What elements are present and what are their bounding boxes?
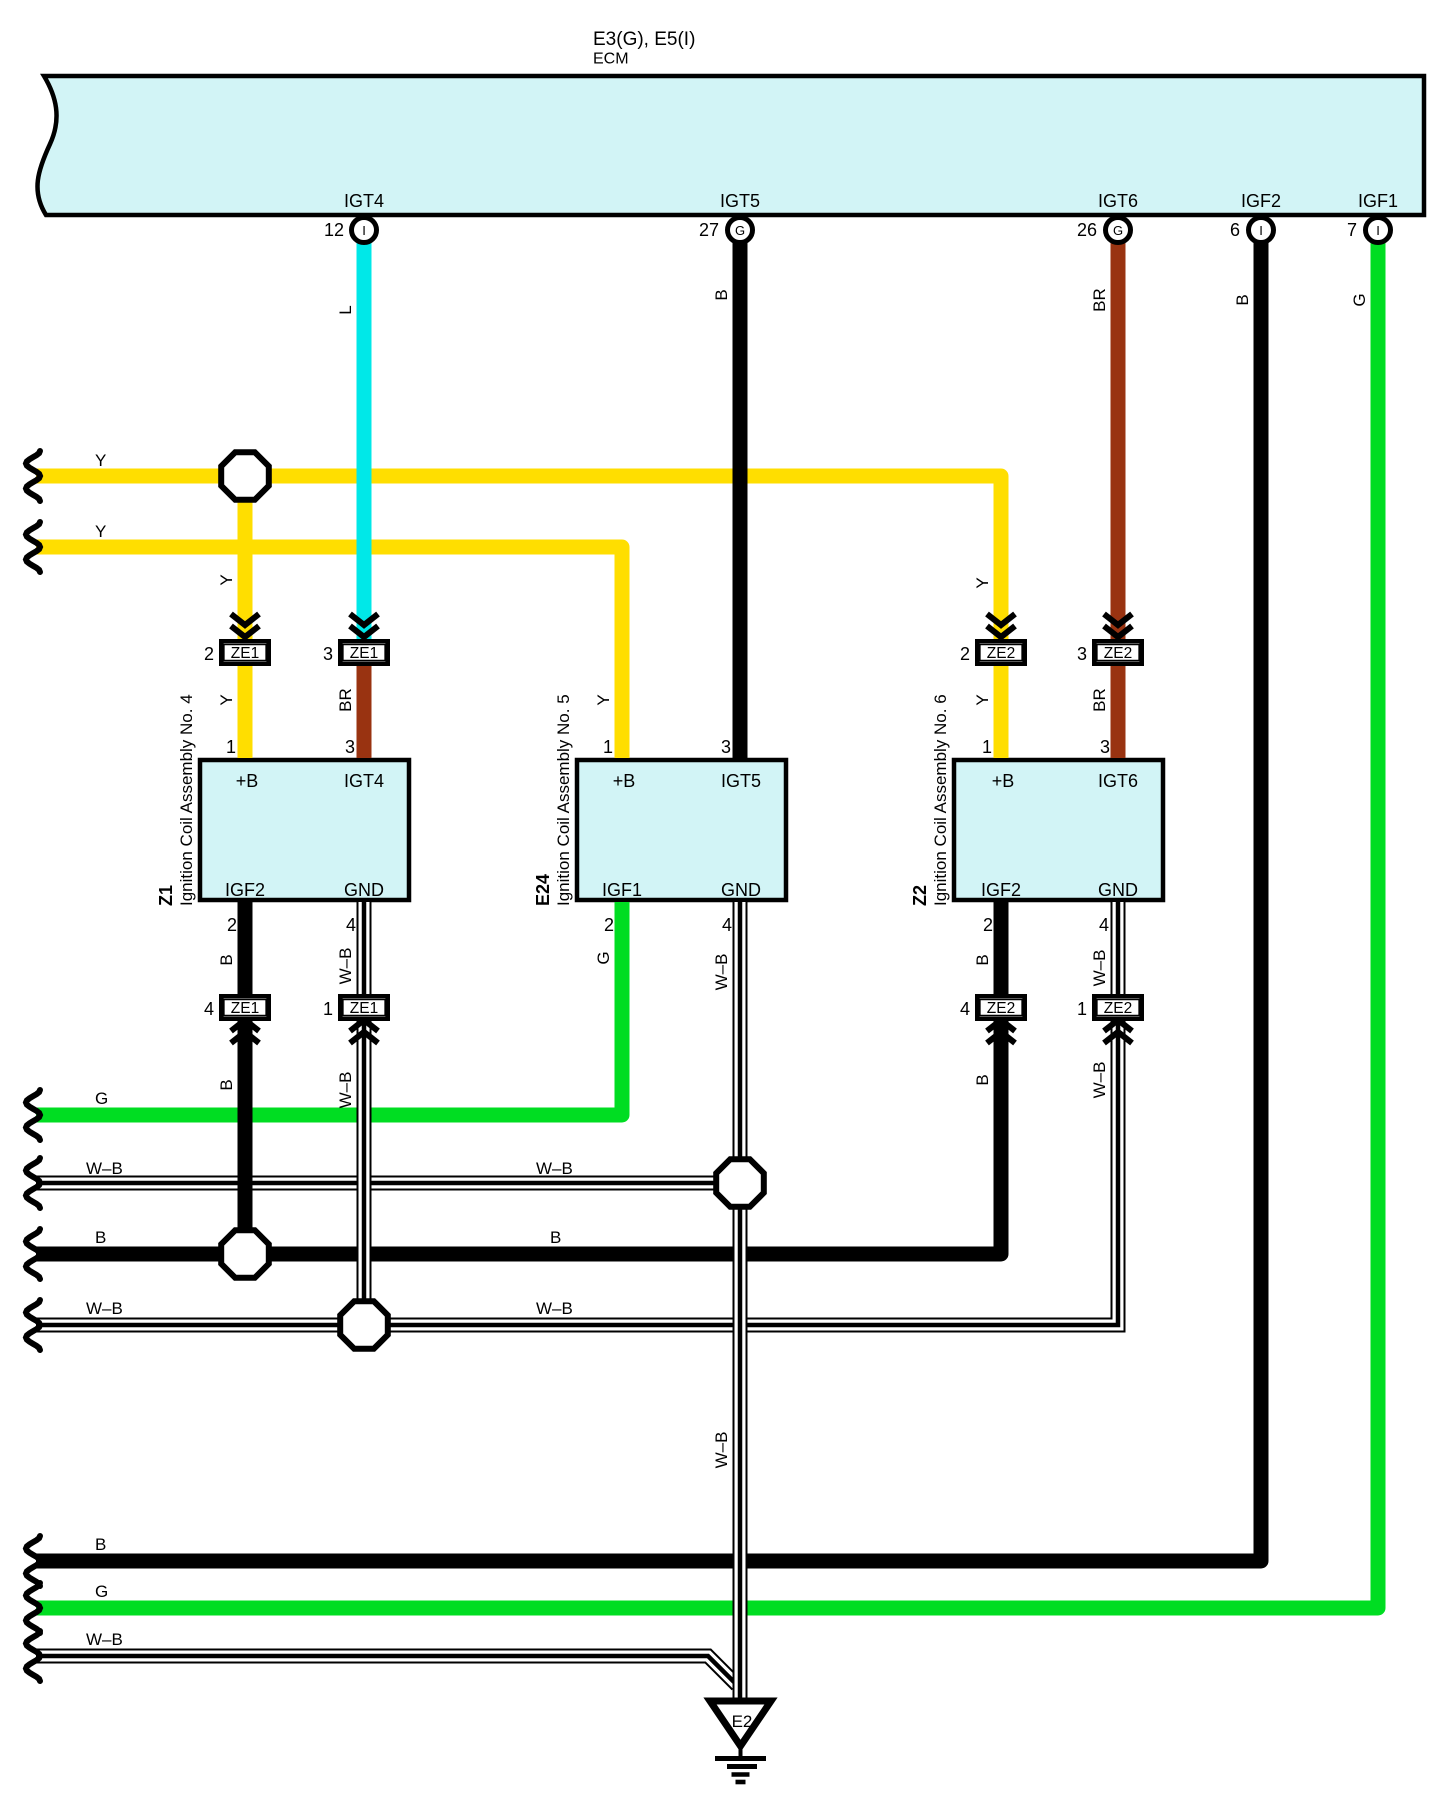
ECM terminal label IGF1 bbox=[1358, 191, 1398, 211]
svg-text:Z2: Z2 bbox=[910, 885, 930, 906]
svg-text:ECM: ECM bbox=[593, 51, 629, 68]
connector ZE2 pin 1 bbox=[1094, 996, 1141, 1018]
wire label B bottom left bbox=[95, 1535, 106, 1554]
wire color label B coil4 IGF2 bbox=[217, 954, 236, 965]
ECM terminal label IGT5 bbox=[720, 191, 760, 211]
wire B from ECM IGF2 to left edge bbox=[36, 243, 1261, 1561]
wire break symbol B bottom bbox=[26, 1536, 40, 1586]
wire label Y bus left bbox=[95, 451, 106, 470]
svg-text:2: 2 bbox=[983, 915, 993, 935]
connector ZE2 pin 2 bbox=[977, 641, 1024, 663]
svg-text:+B: +B bbox=[236, 771, 259, 791]
svg-text:ZE1: ZE1 bbox=[231, 645, 259, 662]
pin number coil5 pin 4 bbox=[722, 915, 732, 935]
component title No.5 bbox=[554, 694, 573, 906]
svg-text:6: 6 bbox=[1230, 220, 1240, 240]
wire color label W-B ground run bbox=[712, 1432, 731, 1469]
junction W-B ground bus bbox=[716, 1159, 764, 1207]
wire label W-B lower mid bbox=[536, 1299, 573, 1318]
junction B bus bbox=[221, 1230, 269, 1278]
svg-text:1: 1 bbox=[1077, 999, 1087, 1019]
svg-text:B: B bbox=[95, 1228, 106, 1247]
svg-text:IGT6: IGT6 bbox=[1098, 191, 1138, 211]
male connector arrow into ZE1 pin 2 bbox=[231, 614, 259, 637]
wire color label BR coil6 IGT6 bbox=[1090, 688, 1109, 712]
svg-text:E3(G), E5(I): E3(G), E5(I) bbox=[593, 29, 695, 50]
junction Y bus bbox=[221, 452, 269, 500]
wire color label W-B coil6 GND bbox=[1090, 950, 1109, 987]
male connector arrow into ZE1 pin 1 bbox=[350, 1020, 378, 1043]
svg-text:I: I bbox=[362, 223, 366, 238]
svg-text:GND: GND bbox=[344, 880, 384, 900]
svg-text:4: 4 bbox=[722, 915, 732, 935]
wire label B bus mid bbox=[550, 1228, 561, 1247]
svg-text:Y: Y bbox=[95, 451, 106, 470]
svg-text:BR: BR bbox=[1090, 688, 1109, 712]
svg-text:Y: Y bbox=[973, 577, 992, 588]
wire Y (+B feed to ZE2-2 / coil No.6) bbox=[36, 476, 1001, 758]
connector ZE1 pin 1 bbox=[340, 996, 387, 1018]
svg-text:IGF1: IGF1 bbox=[602, 880, 642, 900]
pin number coil4 pin 4 bbox=[346, 915, 356, 935]
svg-text:7: 7 bbox=[1347, 220, 1357, 240]
svg-text:IGT5: IGT5 bbox=[720, 191, 760, 211]
wire color label W-B below ZE1-1 bbox=[336, 1072, 355, 1109]
ECM terminal label IGT4 bbox=[344, 191, 384, 211]
wire color label B IGF2 bbox=[1233, 294, 1252, 305]
svg-text:G: G bbox=[1350, 293, 1369, 306]
svg-text:B: B bbox=[550, 1228, 561, 1247]
svg-text:Y: Y bbox=[973, 694, 992, 705]
coil terminal label GND bbox=[721, 880, 761, 900]
component designator Z1 bbox=[156, 885, 176, 906]
svg-text:W–B: W–B bbox=[336, 948, 355, 985]
svg-text:W–B: W–B bbox=[712, 1432, 731, 1469]
wire label W-B upper mid bbox=[536, 1159, 573, 1178]
svg-text:1: 1 bbox=[226, 737, 236, 757]
svg-text:W–B: W–B bbox=[712, 954, 731, 991]
wire color label B below ZE2-4 bbox=[973, 1074, 992, 1085]
svg-text:G: G bbox=[95, 1089, 108, 1108]
svg-text:2: 2 bbox=[227, 915, 237, 935]
wire W-B bus from coil No.6 GND via ZE2-1 to left edge bbox=[36, 902, 1118, 1325]
ECM pin number 27 bbox=[699, 220, 719, 240]
svg-text:+B: +B bbox=[613, 771, 636, 791]
svg-text:Ignition Coil Assembly No. 5: Ignition Coil Assembly No. 5 bbox=[554, 694, 573, 906]
coil terminal label +B bbox=[992, 771, 1015, 791]
wire color label G IGF1 bbox=[1350, 293, 1369, 306]
coil terminal label IGT4 bbox=[344, 771, 384, 791]
pin number coil6 pin 3 bbox=[1100, 737, 1110, 757]
wire Y (+B feed to coil No.5) bbox=[36, 547, 622, 758]
svg-text:3: 3 bbox=[1077, 644, 1087, 664]
svg-text:BR: BR bbox=[1090, 288, 1109, 312]
wire color label Y coil6 +B bbox=[973, 694, 992, 705]
connector ZE1 pin 4 bbox=[221, 996, 268, 1018]
svg-text:G: G bbox=[594, 951, 613, 964]
svg-text:Y: Y bbox=[594, 694, 613, 705]
coil terminal label GND bbox=[1098, 880, 1138, 900]
wire W-B from coil No.4 GND via ZE1-1 to junction bbox=[357, 902, 372, 1325]
svg-text:B: B bbox=[973, 954, 992, 965]
svg-text:4: 4 bbox=[204, 999, 214, 1019]
svg-text:Z1: Z1 bbox=[156, 885, 176, 906]
svg-text:4: 4 bbox=[960, 999, 970, 1019]
ECM name label bbox=[593, 51, 629, 68]
svg-text:L: L bbox=[336, 305, 355, 314]
svg-text:ZE1: ZE1 bbox=[350, 1000, 378, 1017]
coil terminal label GND bbox=[344, 880, 384, 900]
svg-text:1: 1 bbox=[603, 737, 613, 757]
wire color label Y coil4 +B bbox=[217, 694, 236, 705]
ECM box E3(G), E5(I) bbox=[37, 76, 1424, 215]
ignition coil assembly No. 5 box bbox=[577, 760, 786, 900]
svg-text:ZE2: ZE2 bbox=[1104, 1000, 1132, 1017]
svg-text:IGF2: IGF2 bbox=[981, 880, 1021, 900]
svg-text:B: B bbox=[217, 1079, 236, 1090]
wire break symbol Y bus bbox=[26, 451, 40, 501]
pin number coil6 pin 2 bbox=[983, 915, 993, 935]
ECM pin 26 IGT6 bbox=[1106, 218, 1131, 243]
connector pin number ZE1-1 bbox=[323, 999, 333, 1019]
wire color label Y ZE1-2 upper bbox=[217, 574, 236, 585]
svg-text:W–B: W–B bbox=[86, 1630, 123, 1649]
svg-text:B: B bbox=[1233, 294, 1252, 305]
wire color label Y coil5 +B bbox=[594, 694, 613, 705]
svg-text:Y: Y bbox=[95, 522, 106, 541]
svg-text:B: B bbox=[217, 954, 236, 965]
svg-text:4: 4 bbox=[1099, 915, 1109, 935]
svg-text:G: G bbox=[95, 1582, 108, 1601]
component title No.4 bbox=[177, 694, 196, 906]
svg-text:3: 3 bbox=[721, 737, 731, 757]
pin number coil5 pin 3 bbox=[721, 737, 731, 757]
male connector arrow into ZE1 pin 4 bbox=[231, 1020, 259, 1043]
svg-text:2: 2 bbox=[604, 915, 614, 935]
svg-text:Y: Y bbox=[217, 574, 236, 585]
wire color label B coil6 IGF2 bbox=[973, 954, 992, 965]
svg-text:E24: E24 bbox=[533, 874, 553, 906]
wire break symbol W-B bottom bbox=[26, 1631, 40, 1681]
ignition coil assembly No. 6 box bbox=[954, 760, 1163, 900]
wire color label W-B coil4 GND bbox=[336, 948, 355, 985]
male connector arrow into ZE2 pin 2 bbox=[987, 614, 1015, 637]
svg-text:Ignition Coil Assembly No. 4: Ignition Coil Assembly No. 4 bbox=[177, 694, 196, 906]
wire B bus from coil No.6 IGF2 via ZE2-4 to left edge bbox=[36, 902, 1001, 1254]
wire label Y lower left bbox=[95, 522, 106, 541]
wire break symbol W-B lower bbox=[26, 1300, 40, 1350]
pin number coil4 pin 3 bbox=[345, 737, 355, 757]
wire label W-B lower left bbox=[86, 1299, 123, 1318]
svg-text:I: I bbox=[1259, 223, 1263, 238]
svg-text:ZE1: ZE1 bbox=[231, 1000, 259, 1017]
svg-text:ZE2: ZE2 bbox=[1104, 645, 1132, 662]
svg-text:W–B: W–B bbox=[536, 1159, 573, 1178]
coil terminal label IGF2 bbox=[981, 880, 1021, 900]
svg-text:ZE1: ZE1 bbox=[350, 645, 378, 662]
wire color label L bbox=[336, 305, 355, 314]
coil terminal label +B bbox=[236, 771, 259, 791]
svg-text:3: 3 bbox=[345, 737, 355, 757]
pin number coil4 pin 1 bbox=[226, 737, 236, 757]
wire G from ECM IGF1 to left edge bbox=[36, 243, 1378, 1608]
wire B from ECM IGT5 to coil No.5 IGT5 bbox=[733, 243, 748, 758]
svg-text:2: 2 bbox=[960, 644, 970, 664]
component title No.6 bbox=[931, 694, 950, 906]
svg-text:12: 12 bbox=[324, 220, 344, 240]
ECM terminal label IGF2 bbox=[1241, 191, 1281, 211]
wire break symbol W-B upper bbox=[26, 1158, 40, 1208]
wire color label BR IGT6 bbox=[1090, 288, 1109, 312]
svg-text:2: 2 bbox=[204, 644, 214, 664]
junction W-B bus bbox=[340, 1301, 388, 1349]
connector ZE2 pin 4 bbox=[977, 996, 1024, 1018]
connector ZE2 pin 3 bbox=[1094, 641, 1141, 663]
connector ZE1 pin 3 bbox=[340, 641, 387, 663]
connector pin number ZE2-2 bbox=[960, 644, 970, 664]
male connector arrow into ZE2 pin 1 bbox=[1104, 1020, 1132, 1043]
wire BR from ZE1-3 to coil No.4 IGT4 bbox=[357, 665, 372, 758]
coil terminal label IGF1 bbox=[602, 880, 642, 900]
wire break symbol G mid bbox=[26, 1090, 40, 1140]
wire color label B IGT5 bbox=[712, 289, 731, 300]
ECM pin number 12 bbox=[324, 220, 344, 240]
svg-text:B: B bbox=[973, 1074, 992, 1085]
svg-text:27: 27 bbox=[699, 220, 719, 240]
svg-text:BR: BR bbox=[336, 688, 355, 712]
ECM pin 7 IGF1 bbox=[1366, 218, 1391, 243]
wire label G bottom left bbox=[95, 1582, 108, 1601]
ECM pin 12 IGT4 bbox=[352, 218, 377, 243]
wire W-B ground bus upper to junction bbox=[36, 1176, 740, 1191]
svg-text:IGT6: IGT6 bbox=[1098, 771, 1138, 791]
wire color label W-B coil5 GND bbox=[712, 954, 731, 991]
pin number coil5 pin 2 bbox=[604, 915, 614, 935]
ECM pin number 7 bbox=[1347, 220, 1357, 240]
component designator E24 bbox=[533, 874, 553, 906]
wire Y drop junction to ZE1-2 / coil No.4 +B bbox=[238, 476, 253, 758]
male connector arrow into ZE1 pin 3 bbox=[350, 614, 378, 637]
wire G from coil No.5 IGF1 to left edge bbox=[36, 902, 622, 1115]
svg-text:Y: Y bbox=[217, 694, 236, 705]
svg-text:IGT4: IGT4 bbox=[344, 191, 384, 211]
wire BR from ECM IGT6 via ZE2-3 to coil No.6 IGT6 bbox=[1111, 243, 1126, 758]
ignition coil assembly No. 4 box bbox=[200, 760, 409, 900]
svg-text:I: I bbox=[1376, 223, 1380, 238]
svg-text:ZE2: ZE2 bbox=[987, 645, 1015, 662]
svg-text:Ignition Coil Assembly No. 6: Ignition Coil Assembly No. 6 bbox=[931, 694, 950, 906]
ECM pin 6 IGF2 bbox=[1249, 218, 1274, 243]
connector pin number ZE1-2 bbox=[204, 644, 214, 664]
connector pin number ZE2-1 bbox=[1077, 999, 1087, 1019]
wire color label B below ZE1-4 bbox=[217, 1079, 236, 1090]
svg-text:IGF1: IGF1 bbox=[1358, 191, 1398, 211]
svg-text:1: 1 bbox=[323, 999, 333, 1019]
ECM terminal label IGT6 bbox=[1098, 191, 1138, 211]
ECM connector codes label bbox=[593, 29, 695, 50]
svg-text:ZE2: ZE2 bbox=[987, 1000, 1015, 1017]
male connector arrow into ZE2 pin 4 bbox=[987, 1020, 1015, 1043]
component designator Z2 bbox=[910, 885, 930, 906]
svg-text:GND: GND bbox=[721, 880, 761, 900]
svg-text:4: 4 bbox=[346, 915, 356, 935]
connector pin number ZE1-4 bbox=[204, 999, 214, 1019]
wire W-B from coil No.5 GND down to ground E2 bbox=[733, 902, 748, 1699]
svg-text:B: B bbox=[712, 289, 731, 300]
svg-text:IGF2: IGF2 bbox=[225, 880, 265, 900]
svg-text:W–B: W–B bbox=[1090, 1062, 1109, 1099]
wire L from ECM IGT4 to ZE1-3 bbox=[357, 243, 372, 640]
ECM pin number 6 bbox=[1230, 220, 1240, 240]
svg-text:3: 3 bbox=[1100, 737, 1110, 757]
svg-text:1: 1 bbox=[982, 737, 992, 757]
connector pin number ZE2-3 bbox=[1077, 644, 1087, 664]
wire label W-B bottom left bbox=[86, 1630, 123, 1649]
svg-text:W–B: W–B bbox=[86, 1159, 123, 1178]
svg-text:E2: E2 bbox=[732, 1712, 753, 1731]
wire label G mid left bbox=[95, 1089, 108, 1108]
coil terminal label IGT6 bbox=[1098, 771, 1138, 791]
pin number coil5 pin 1 bbox=[603, 737, 613, 757]
wire color label BR coil4 IGT4 bbox=[336, 688, 355, 712]
wire label B bus left bbox=[95, 1228, 106, 1247]
svg-text:IGF2: IGF2 bbox=[1241, 191, 1281, 211]
connector pin number ZE2-4 bbox=[960, 999, 970, 1019]
connector pin number ZE1-3 bbox=[323, 644, 333, 664]
svg-text:+B: +B bbox=[992, 771, 1015, 791]
coil terminal label +B bbox=[613, 771, 636, 791]
ground E2 bbox=[710, 1701, 771, 1782]
wire break symbol Y lower bbox=[26, 522, 40, 572]
wire B from coil No.4 IGF2 via ZE1-4 to junction bbox=[238, 902, 253, 1254]
svg-text:W–B: W–B bbox=[1090, 950, 1109, 987]
svg-text:3: 3 bbox=[323, 644, 333, 664]
svg-text:B: B bbox=[95, 1535, 106, 1554]
wire label W-B upper left bbox=[86, 1159, 123, 1178]
pin number coil6 pin 1 bbox=[982, 737, 992, 757]
svg-text:IGT4: IGT4 bbox=[344, 771, 384, 791]
svg-text:G: G bbox=[1113, 223, 1123, 238]
coil terminal label IGF2 bbox=[225, 880, 265, 900]
svg-text:W–B: W–B bbox=[86, 1299, 123, 1318]
male connector arrow into ZE2 pin 3 bbox=[1104, 614, 1132, 637]
svg-text:W–B: W–B bbox=[536, 1299, 573, 1318]
wire color label G coil5 IGF1 bbox=[594, 951, 613, 964]
pin number coil4 pin 2 bbox=[227, 915, 237, 935]
coil terminal label IGT5 bbox=[721, 771, 761, 791]
wire color label W-B below ZE2-1 bbox=[1090, 1062, 1109, 1099]
svg-text:GND: GND bbox=[1098, 880, 1138, 900]
svg-text:G: G bbox=[735, 223, 745, 238]
svg-text:W–B: W–B bbox=[336, 1072, 355, 1109]
wire break symbol G bottom bbox=[26, 1583, 40, 1633]
connector ZE1 pin 2 bbox=[221, 641, 268, 663]
ECM pin 27 IGT5 bbox=[728, 218, 753, 243]
wire break symbol B bus bbox=[26, 1229, 40, 1279]
pin number coil6 pin 4 bbox=[1099, 915, 1109, 935]
ECM pin number 26 bbox=[1077, 220, 1097, 240]
wire W-B bottom branch from left edge to ground run bbox=[36, 1656, 737, 1685]
svg-text:26: 26 bbox=[1077, 220, 1097, 240]
wire color label Y ZE2-2 upper bbox=[973, 577, 992, 588]
svg-text:IGT5: IGT5 bbox=[721, 771, 761, 791]
